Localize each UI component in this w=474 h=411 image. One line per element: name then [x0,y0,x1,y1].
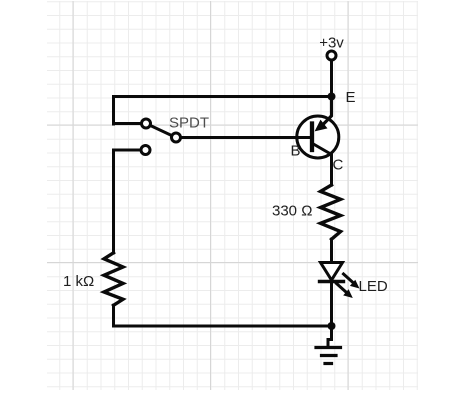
svg-text:+3v: +3v [319,35,344,52]
wire: junction to ground [328,326,332,347]
transistor Q1 emitter lead [324,97,332,124]
wire: to switch throw 1 [114,122,142,125]
resistor R2 330ohm [321,185,341,239]
LED emission arrow 2 [337,284,347,293]
transistor Q1 base lead inside body [297,136,310,139]
wire: R1 to bottom rail [112,305,115,326]
junction node dot [328,322,336,330]
svg-text:B: B [291,143,301,160]
svg-text:330 Ω: 330 Ω [272,203,312,220]
wire: resistor to LED [330,239,333,262]
transistor Q1 body [297,116,339,158]
wire: pole to transistor base [181,136,309,139]
switch SPDT throw 2 terminal [141,146,150,155]
switch SPDT pole terminal [172,133,181,142]
transistor Q1 base bar [310,124,314,151]
transistor Q1 emitter arrowhead [315,120,328,132]
LED D1 triangle [321,263,343,281]
node E junction dot [328,93,336,101]
svg-text:1 kΩ: 1 kΩ [63,273,94,290]
LED emission arrow 1 [344,274,354,283]
power terminal +3v [327,51,336,60]
transistor Q1 collector lead [313,144,332,186]
wire: +3v stem to node E [330,60,333,97]
svg-text:LED: LED [359,278,388,295]
svg-text:SPDT: SPDT [169,115,209,132]
ground symbol [316,348,341,364]
switch SPDT throw 1 terminal [142,119,151,128]
wire: LED cathode to junction [330,282,333,327]
svg-text:C: C [333,157,344,174]
resistor R1 1kohm [104,253,123,305]
svg-text:E: E [346,89,356,106]
switch SPDT lever [150,125,172,135]
wire: top rail [114,97,332,125]
wire: throw 2 to left rail [114,150,141,253]
wire: bottom rail [114,325,332,328]
LED D1 cathode bar [320,280,344,283]
